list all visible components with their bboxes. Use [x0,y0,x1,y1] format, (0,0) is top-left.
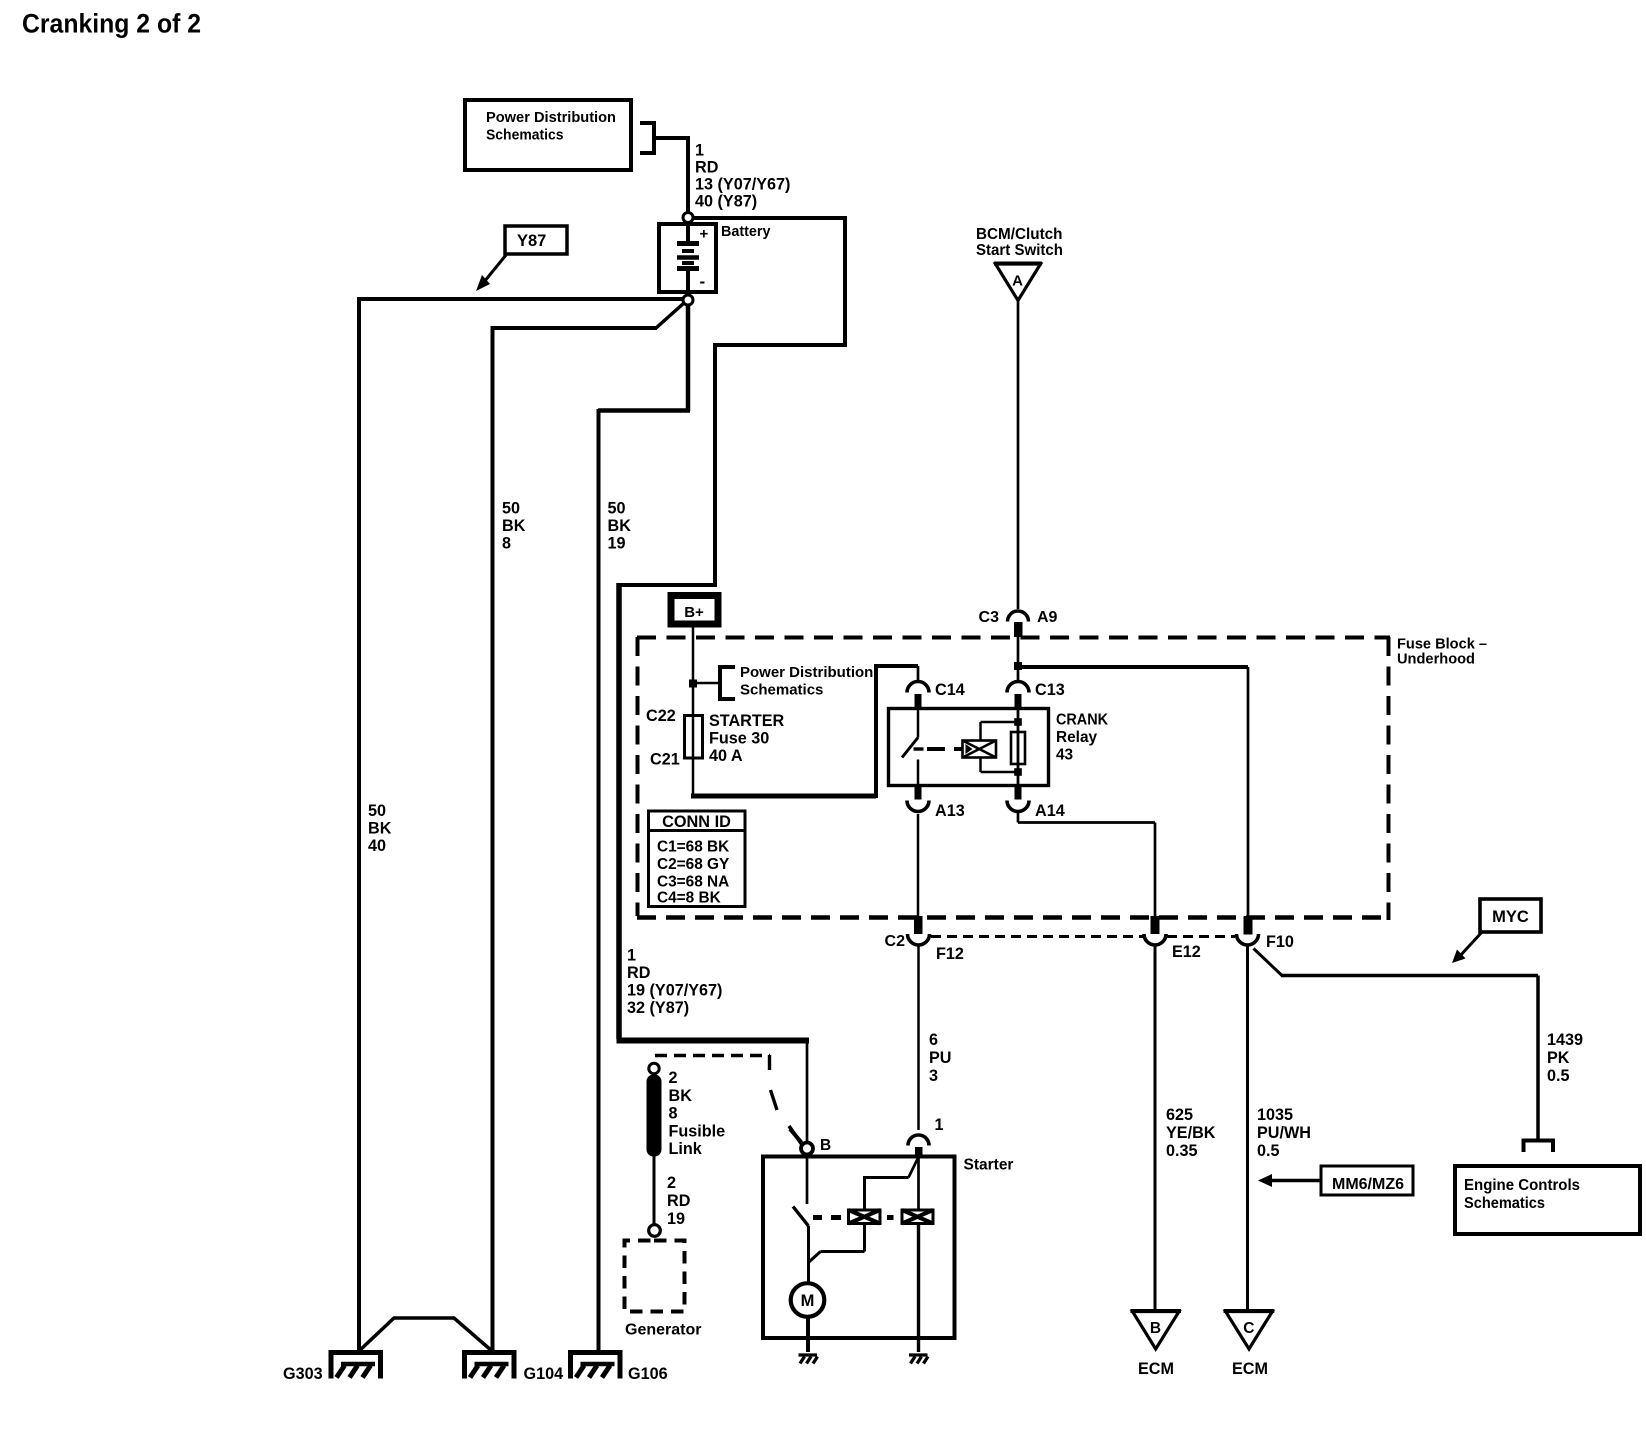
svg-text:Underhood: Underhood [1397,651,1475,668]
svg-text:40 A: 40 A [709,747,743,765]
svg-text:F12: F12 [936,945,964,963]
svg-text:C1=68 BK: C1=68 BK [657,839,729,856]
svg-text:C4=8 BK: C4=8 BK [657,890,721,907]
svg-text:1035: 1035 [1257,1106,1293,1124]
svg-text:MYC: MYC [1492,908,1529,926]
svg-text:BK: BK [669,1087,693,1105]
svg-text:Engine Controls: Engine Controls [1464,1177,1580,1194]
svg-text:40: 40 [368,837,386,855]
svg-text:BK: BK [502,517,526,535]
svg-text:Schematics: Schematics [1464,1195,1545,1212]
svg-text:40 (Y87): 40 (Y87) [695,193,757,211]
svg-text:Schematics: Schematics [486,127,564,144]
svg-text:A13: A13 [935,802,965,820]
svg-text:BK: BK [368,820,392,838]
svg-text:3: 3 [929,1067,938,1085]
svg-text:RD: RD [695,159,719,177]
svg-text:Starter: Starter [964,1157,1014,1174]
svg-text:CRANK: CRANK [1056,712,1108,729]
svg-text:C13: C13 [1035,681,1065,699]
svg-text:13 (Y07/Y67): 13 (Y07/Y67) [695,176,790,194]
svg-text:43: 43 [1056,747,1073,764]
svg-text:Power Distribution: Power Distribution [740,664,873,681]
svg-text:1: 1 [935,1116,944,1134]
svg-text:Schematics: Schematics [740,682,823,699]
svg-text:1: 1 [627,947,636,965]
svg-text:A: A [1012,273,1023,290]
svg-text:C3: C3 [979,609,1000,626]
svg-text:19 (Y07/Y67): 19 (Y07/Y67) [627,982,722,1000]
svg-text:Power Distribution: Power Distribution [486,109,616,126]
svg-text:G104: G104 [524,1365,564,1383]
svg-text:Y87: Y87 [517,232,546,250]
svg-text:STARTER: STARTER [709,712,785,730]
svg-text:BCM/Clutch: BCM/Clutch [976,226,1063,243]
svg-text:Cranking 2 of 2: Cranking 2 of 2 [22,9,201,39]
svg-text:RD: RD [627,964,651,982]
svg-text:MM6/MZ6: MM6/MZ6 [1332,1176,1404,1193]
svg-text:Generator: Generator [625,1322,701,1339]
svg-text:8: 8 [502,535,511,553]
svg-text:1: 1 [695,142,704,160]
svg-text:C2=68 GY: C2=68 GY [657,856,730,873]
svg-text:0.5: 0.5 [1547,1067,1570,1085]
svg-text:F10: F10 [1266,933,1294,951]
svg-text:C2: C2 [885,933,906,950]
svg-text:32 (Y87): 32 (Y87) [627,999,689,1017]
svg-text:A14: A14 [1035,802,1065,820]
svg-text:+: + [700,226,709,243]
svg-text:C21: C21 [650,751,680,769]
svg-text:C: C [1243,1320,1254,1337]
svg-text:8: 8 [669,1105,678,1123]
svg-text:B+: B+ [684,604,704,621]
svg-text:Fusible: Fusible [669,1123,726,1141]
svg-text:19: 19 [608,535,626,553]
svg-text:M: M [801,1292,815,1310]
svg-text:PU/WH: PU/WH [1257,1124,1311,1142]
svg-text:CONN ID: CONN ID [662,813,731,831]
svg-text:C3=68 NA: C3=68 NA [657,874,729,891]
svg-text:B: B [1150,1320,1161,1337]
svg-text:ECM: ECM [1138,1360,1174,1378]
svg-text:PU: PU [929,1049,952,1067]
svg-text:Battery: Battery [721,223,771,240]
svg-text:0.5: 0.5 [1257,1142,1280,1160]
svg-text:YE/BK: YE/BK [1166,1124,1216,1142]
svg-text:B: B [820,1137,831,1154]
svg-text:ECM: ECM [1232,1360,1268,1378]
svg-text:6: 6 [929,1031,938,1049]
svg-text:Link: Link [669,1140,703,1158]
svg-text:G303: G303 [283,1365,323,1383]
svg-text:G106: G106 [628,1365,668,1383]
svg-text:Start Switch: Start Switch [976,242,1063,259]
svg-text:BK: BK [608,517,632,535]
svg-text:RD: RD [667,1192,691,1210]
svg-text:625: 625 [1166,1106,1193,1124]
svg-text:Fuse 30: Fuse 30 [709,730,769,748]
svg-text:19: 19 [667,1210,685,1228]
svg-text:C22: C22 [646,707,676,725]
svg-text:C14: C14 [935,681,965,699]
svg-text:0.35: 0.35 [1166,1142,1198,1160]
svg-text:50: 50 [608,500,626,518]
svg-text:A9: A9 [1037,609,1058,626]
svg-text:PK: PK [1547,1049,1570,1067]
svg-text:2: 2 [669,1069,678,1087]
svg-text:1439: 1439 [1547,1031,1583,1049]
svg-text:50: 50 [368,802,386,820]
svg-text:-: - [700,272,706,291]
svg-text:2: 2 [667,1174,676,1192]
svg-text:Relay: Relay [1056,729,1098,746]
svg-text:E12: E12 [1172,943,1201,961]
svg-text:50: 50 [502,500,520,518]
